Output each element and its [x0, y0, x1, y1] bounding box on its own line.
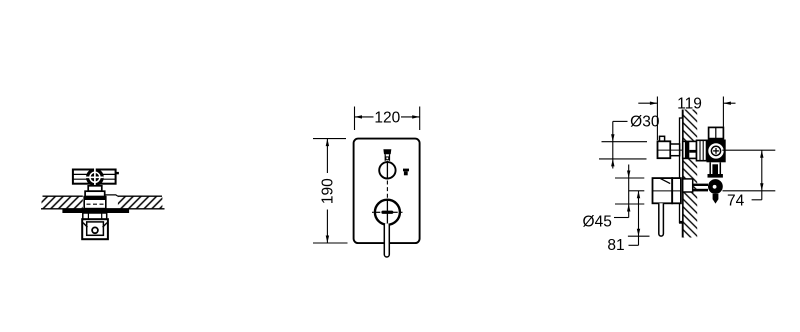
bottom housing [82, 219, 108, 239]
svg-text:74: 74 [727, 192, 745, 209]
diverter knob [658, 141, 671, 158]
svg-text:120: 120 [374, 109, 400, 126]
body through deck [84, 197, 106, 209]
in-wall box lower [683, 179, 693, 192]
upper knob [379, 162, 395, 178]
in-wall connector upper [683, 141, 697, 158]
dim O45 object lines [615, 177, 644, 179]
dim 81 lines [629, 190, 645, 192]
knob button [660, 136, 665, 141]
dim O30 object lines [602, 141, 648, 143]
valve neck [88, 186, 102, 191]
lever handle [384, 224, 389, 258]
dim 119 extension lines [656, 97, 658, 141]
handle pin [116, 172, 119, 174]
dim 74 extension lines [722, 149, 775, 151]
cartridge band [85, 191, 105, 196]
wall hatch left [42, 196, 83, 208]
lower bracket [709, 162, 711, 174]
wall hatch [683, 110, 698, 238]
lower outlet [708, 179, 723, 194]
lever escutcheon [672, 178, 681, 203]
diverter button [383, 149, 391, 154]
dim 74 line [761, 150, 763, 200]
lever rod [659, 203, 664, 236]
wall top line left [43, 195, 83, 197]
wall face line [682, 110, 684, 238]
dim 120 extension lines [354, 107, 356, 131]
lower knob [375, 200, 400, 225]
handle bar [73, 170, 116, 184]
connector to outlet [693, 184, 708, 186]
escutcheon plate [62, 209, 129, 213]
centre line horizontal [372, 211, 374, 213]
svg-text:81: 81 [607, 237, 624, 254]
wall fitting [697, 140, 707, 160]
svg-text:119: 119 [677, 96, 702, 113]
lever slot [381, 211, 393, 214]
lever body [653, 178, 673, 203]
wall step line [105, 195, 118, 196]
wall top line right [118, 195, 162, 197]
body below plate [83, 213, 107, 219]
trim plate edge [680, 118, 683, 223]
top fitting [709, 127, 724, 138]
wall hatch right [118, 196, 162, 208]
dim 120 line [355, 116, 374, 118]
valve body [707, 140, 726, 163]
small stop mark [403, 169, 409, 172]
trim plate [354, 139, 420, 244]
svg-text:Ø30: Ø30 [630, 113, 660, 130]
dim O45 arrows [628, 165, 630, 218]
dim 119 line [638, 102, 657, 104]
knob stem [670, 144, 679, 156]
dim 190 line [326, 139, 328, 173]
handle boss [86, 168, 104, 186]
centre line vertical [386, 181, 388, 201]
svg-text:190: 190 [320, 178, 337, 204]
outlet circle [92, 227, 98, 233]
svg-text:Ø45: Ø45 [583, 214, 612, 231]
wall bottom line [41, 208, 165, 210]
dim 190 extension lines [313, 138, 346, 140]
dim O30 arrows [612, 121, 614, 168]
